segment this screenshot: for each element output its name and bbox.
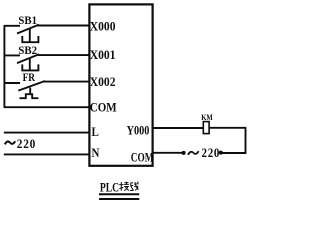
wire: corner to right terminal dot <box>222 152 246 154</box>
wire: SB2 left stub <box>4 54 20 56</box>
thermal relay FR actuator stem <box>29 88 31 95</box>
wire: SB1 to X000 <box>38 25 90 27</box>
wire: Y000 to KM coil <box>153 127 203 129</box>
wire: COM terminal to left terminal dot <box>153 152 182 154</box>
thermal relay FR movable contact <box>18 81 45 91</box>
caption underline 1 <box>99 193 139 195</box>
wire: rail to COM terminal <box>4 106 90 108</box>
svg-text:SB1: SB1 <box>18 15 37 28</box>
wire: L input <box>4 132 90 134</box>
caption: Chinese character jie (connect) <box>119 182 129 191</box>
pushbutton SB1 actuator stem <box>29 29 31 43</box>
junction dot (right of 220) <box>219 151 223 155</box>
wire: SB2 to X001 <box>38 54 90 56</box>
svg-text:L: L <box>92 126 100 140</box>
thermal relay FR heater element <box>20 94 39 98</box>
svg-text:PLC: PLC <box>100 181 119 195</box>
wire: right vertical return <box>245 128 247 153</box>
AC source symbol ~ (left) <box>5 141 15 144</box>
svg-text:COM: COM <box>131 151 154 165</box>
caption underline 2 <box>99 198 139 200</box>
wire: FR to X002 <box>43 81 89 83</box>
wire: N input <box>4 153 90 155</box>
junction dot (left of 220) <box>182 151 186 155</box>
pushbutton SB1 movable contact <box>17 25 39 34</box>
pushbutton SB2 actuator stem <box>29 58 31 70</box>
pushbutton SB2 movable contact <box>17 54 39 63</box>
svg-text:X002: X002 <box>90 75 116 89</box>
svg-text:220: 220 <box>202 146 221 160</box>
wire: KM coil to right corner <box>209 127 246 129</box>
svg-text:X001: X001 <box>90 48 116 62</box>
svg-text:KM: KM <box>201 112 213 122</box>
AC source symbol ~ (right) <box>188 151 199 155</box>
PLC enclosure box <box>89 4 152 165</box>
node: left common rail <box>3 26 5 107</box>
pushbutton SB2 actuator cup <box>22 64 38 70</box>
svg-text:FR: FR <box>23 71 36 84</box>
wire: SB1 left stub <box>4 25 20 27</box>
svg-text:220: 220 <box>17 136 36 151</box>
svg-text:COM: COM <box>90 101 117 115</box>
svg-text:N: N <box>92 146 101 160</box>
svg-text:X000: X000 <box>90 19 116 33</box>
contactor coil KM <box>203 122 209 134</box>
caption: Chinese character xian (wire) <box>130 182 139 191</box>
wire: FR left stub <box>4 82 20 84</box>
svg-text:Y000: Y000 <box>127 125 150 138</box>
pushbutton SB1 actuator cup <box>22 36 38 42</box>
